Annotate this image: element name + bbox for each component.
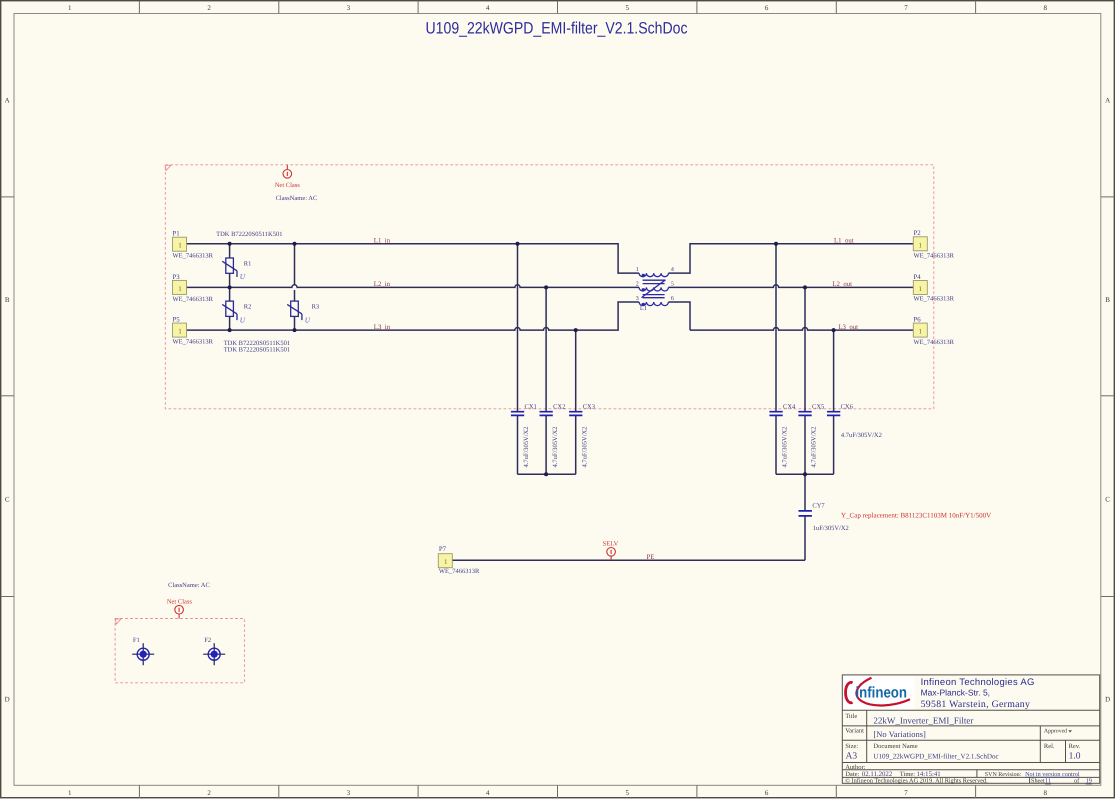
svg-text:6: 6 — [765, 4, 769, 12]
capacitor CX6 — [827, 412, 840, 416]
svg-text:© Infineon Technologies AG 201: © Infineon Technologies AG 2019. All Rig… — [845, 778, 988, 785]
svg-text:L2_out: L2_out — [832, 281, 852, 288]
TITLE BLOCK — [842, 675, 1099, 783]
svg-text:8: 8 — [1044, 4, 1048, 12]
svg-text:7: 7 — [904, 4, 908, 12]
svg-text:4.7uF/305V/X2: 4.7uF/305V/X2 — [782, 427, 789, 468]
svg-text:3: 3 — [636, 296, 639, 302]
svg-text:4.7uF/305V/X2: 4.7uF/305V/X2 — [523, 427, 530, 468]
svg-text:U: U — [305, 316, 311, 324]
svg-text:Y_Cap replacement: B81123C1103: Y_Cap replacement: B81123C1103M 10nF/Y1/… — [841, 511, 991, 519]
junction L2_in/R1-R2 — [228, 285, 232, 289]
net class directive (bottom) — [175, 605, 184, 618]
wire varistor column R1/R2 — [229, 244, 231, 330]
svg-text:PE: PE — [647, 554, 655, 561]
svg-text:SELV: SELV — [603, 541, 619, 548]
svg-text:59581 Warstein, Germany: 59581 Warstein, Germany — [921, 699, 1031, 710]
junction L3_in/R3 — [293, 328, 297, 332]
junction L1_out/CX4 — [774, 242, 778, 246]
svg-text:D: D — [5, 696, 10, 704]
junction CX bus left — [544, 472, 548, 476]
wire varistor column R3 — [294, 244, 296, 330]
coupling diagonal — [642, 280, 666, 298]
svg-text:1: 1 — [68, 789, 72, 797]
svg-text:U: U — [240, 316, 246, 324]
svg-text:1: 1 — [178, 328, 182, 336]
svg-text:CX6: CX6 — [841, 403, 854, 410]
svg-text:4: 4 — [671, 267, 674, 273]
port P6 — [913, 317, 954, 346]
svg-text:CX5: CX5 — [812, 403, 824, 410]
svg-text:22kW_Inverter_EMI_Filter: 22kW_Inverter_EMI_Filter — [873, 715, 973, 725]
capacitor CX5 — [798, 412, 811, 416]
svg-text:Author:: Author: — [845, 764, 865, 771]
wire L3_in (hops at CX1, CX2 verticals) — [187, 302, 640, 330]
capacitor CY7 — [799, 511, 812, 516]
svg-text:1: 1 — [919, 285, 923, 293]
svg-text:Max-Planck-Str. 5,: Max-Planck-Str. 5, — [921, 687, 990, 697]
svg-text:1: 1 — [919, 328, 923, 336]
svg-text:L3_out: L3_out — [838, 324, 858, 331]
svg-text:1: 1 — [178, 242, 182, 250]
svg-text:Net Class: Net Class — [167, 598, 193, 605]
company logo Infineon — [843, 676, 914, 709]
svg-text:4.7uF/305V/X2: 4.7uF/305V/X2 — [841, 432, 882, 439]
wire PE — [452, 559, 805, 561]
winding polarity dots — [642, 274, 645, 306]
svg-text:4.7uF/305V/X2: 4.7uF/305V/X2 — [552, 427, 559, 468]
port P3 — [173, 274, 214, 303]
junction L1_in/R1 — [228, 242, 232, 246]
winding 3 arcs — [639, 302, 668, 306]
svg-text:1: 1 — [178, 285, 182, 293]
svg-text:2: 2 — [636, 282, 639, 288]
svg-text:infineon: infineon — [856, 685, 908, 702]
svg-text:1: 1 — [636, 267, 639, 273]
junction L2_in/CX2 — [544, 285, 548, 289]
fiducial F1 — [132, 637, 154, 665]
svg-text:A: A — [1105, 96, 1110, 104]
svg-text:19: 19 — [1086, 778, 1092, 785]
junction L1_in/CX1 — [516, 242, 520, 246]
svg-text:4.7uF/305V/X2: 4.7uF/305V/X2 — [581, 427, 588, 468]
wire CX5 vertical — [804, 287, 806, 474]
svg-text:R2: R2 — [244, 303, 252, 310]
capacitor CX3 — [569, 412, 582, 416]
capacitor CX4 — [769, 412, 782, 416]
svg-text:2: 2 — [207, 4, 211, 12]
svg-text:5: 5 — [625, 789, 629, 797]
svg-text:ClassName: AC: ClassName: AC — [168, 582, 210, 589]
svg-text:P3: P3 — [173, 274, 181, 281]
svg-text:6: 6 — [765, 789, 769, 797]
svg-text:8: 8 — [1044, 789, 1048, 797]
svg-text:7: 7 — [904, 789, 908, 797]
winding 2 arcs — [639, 287, 668, 291]
svg-text:1.0: 1.0 — [1069, 752, 1081, 762]
svg-text:C: C — [5, 496, 10, 504]
svg-text:R3: R3 — [312, 303, 320, 310]
svg-text:L1_out: L1_out — [834, 238, 854, 245]
svg-text:U109_22kWGPD_EMI-filter_V2.1.S: U109_22kWGPD_EMI-filter_V2.1.SchDoc — [426, 20, 688, 38]
blanket AC class (top) — [165, 165, 934, 409]
wire CX1-CX3 bottom bus — [518, 473, 576, 475]
svg-text:5: 5 — [671, 282, 674, 288]
wire CX1 vertical — [517, 244, 519, 474]
svg-text:P2: P2 — [914, 230, 922, 237]
svg-text:CX2: CX2 — [553, 403, 565, 410]
svg-text:P1: P1 — [173, 231, 180, 238]
svg-text:Rev.: Rev. — [1069, 743, 1081, 750]
svg-text:3: 3 — [347, 4, 351, 12]
svg-text:L3_in: L3_in — [374, 324, 391, 331]
port P7 — [438, 546, 480, 575]
varistor R2 — [222, 301, 237, 320]
svg-text:CX3: CX3 — [583, 403, 595, 410]
svg-text:4: 4 — [486, 789, 490, 797]
fiducial F2 — [203, 637, 225, 665]
common-mode choke L1 — [639, 273, 668, 306]
svg-text:11: 11 — [1045, 778, 1051, 785]
svg-text:5: 5 — [625, 4, 629, 12]
svg-text:1: 1 — [919, 242, 923, 250]
port P1 — [173, 231, 214, 260]
wire L1_out — [668, 244, 913, 273]
svg-text:Approved: Approved — [1044, 727, 1067, 734]
svg-text:WE_7466313R: WE_7466313R — [173, 253, 214, 260]
svg-text:TDK B72220S0511K501: TDK B72220S0511K501 — [216, 231, 282, 238]
wire CX4 vertical — [775, 244, 777, 474]
wire CX4-CX6 bottom bus — [776, 473, 834, 475]
svg-text:1: 1 — [444, 558, 448, 566]
svg-text:Size:: Size: — [845, 743, 858, 750]
svg-text:Document Name: Document Name — [873, 743, 917, 750]
core bars — [643, 280, 665, 298]
svg-text:L2_in: L2_in — [374, 281, 391, 288]
port P4 — [913, 274, 954, 303]
svg-text:L1_in: L1_in — [374, 238, 391, 245]
svg-text:Title: Title — [845, 713, 857, 720]
svg-text:P6: P6 — [914, 317, 922, 324]
varistor R3 — [287, 301, 302, 320]
wire L2_out (hop at CX4 vertical) — [668, 285, 913, 288]
svg-text:SVN Revision:: SVN Revision: — [985, 772, 1022, 778]
junction L3_in/R2 — [228, 328, 232, 332]
wire L3_out (hops at CX4, CX5 verticals) — [668, 302, 913, 330]
svg-text:[No Variations]: [No Variations] — [873, 729, 926, 739]
svg-text:Sheet: Sheet — [1031, 778, 1045, 785]
svg-text:3: 3 — [347, 789, 351, 797]
svg-text:A3: A3 — [846, 752, 858, 762]
svg-text:Variant: Variant — [845, 727, 864, 734]
capacitor CX2 — [540, 412, 553, 416]
svg-text:2: 2 — [207, 789, 211, 797]
net class directive (top) — [283, 165, 292, 178]
svg-text:F1: F1 — [133, 637, 140, 644]
svg-text:1uF/305V/X2: 1uF/305V/X2 — [813, 525, 849, 532]
blanket AC class (bottom) — [115, 619, 244, 683]
wire L1_in — [187, 244, 640, 273]
svg-text:WE_7466313R: WE_7466313R — [914, 339, 955, 346]
svg-text:U: U — [240, 273, 246, 281]
port P2 — [913, 230, 954, 259]
svg-text:A: A — [5, 96, 10, 104]
junction L1_in/R3 — [293, 242, 297, 246]
svg-text:WE_7466313R: WE_7466313R — [914, 296, 955, 303]
svg-text:CX1: CX1 — [525, 403, 537, 410]
SELV directive — [607, 548, 616, 561]
junction L3_out/CX6 — [832, 328, 836, 332]
varistor R1 — [222, 258, 237, 277]
svg-text:Infineon Technologies AG: Infineon Technologies AG — [921, 677, 1035, 688]
junction CX bus right / CY7 — [803, 472, 807, 476]
junction L2_out/CX5 — [803, 285, 807, 289]
svg-text:U109_22kWGPD_EMI-filter_V2.1.S: U109_22kWGPD_EMI-filter_V2.1.SchDoc — [873, 753, 998, 761]
svg-text:WE_7466313R: WE_7466313R — [439, 568, 480, 575]
wire CX2 vertical — [545, 287, 547, 474]
svg-text:WE_7466313R: WE_7466313R — [173, 339, 214, 346]
port P5 — [173, 317, 214, 346]
svg-text:P7: P7 — [439, 546, 447, 553]
capacitor CX1 — [511, 412, 524, 416]
svg-text:6: 6 — [671, 296, 674, 302]
svg-text:B: B — [1105, 296, 1110, 304]
svg-text:D: D — [1105, 696, 1110, 704]
junction L3_in/CX3 — [574, 328, 578, 332]
svg-text:ClassName: AC: ClassName: AC — [276, 195, 318, 202]
svg-text:B: B — [5, 296, 10, 304]
svg-text:WE_7466313R: WE_7466313R — [914, 253, 955, 260]
svg-text:4.7uF/305V/X2: 4.7uF/305V/X2 — [811, 427, 818, 468]
svg-text:P5: P5 — [173, 317, 181, 324]
wire CY7 vertical — [804, 474, 806, 560]
wire L2_in (hops at R3 and CX1 verticals) — [187, 285, 640, 288]
svg-text:CX4: CX4 — [783, 403, 796, 410]
svg-text:WE_7466313R: WE_7466313R — [173, 296, 214, 303]
wire CX6 vertical — [833, 330, 835, 474]
svg-text:TDK B72220S0511K501: TDK B72220S0511K501 — [224, 346, 290, 353]
svg-text:1: 1 — [68, 4, 72, 12]
winding 1 arcs — [639, 273, 668, 277]
svg-text:P4: P4 — [914, 274, 922, 281]
wire CX3 vertical — [575, 330, 577, 474]
svg-text:L1: L1 — [640, 305, 647, 312]
svg-text:Rel.: Rel. — [1044, 743, 1055, 750]
svg-text:C: C — [1105, 496, 1110, 504]
svg-text:F2: F2 — [204, 637, 211, 644]
svg-text:4: 4 — [486, 4, 490, 12]
svg-text:Net Class: Net Class — [275, 182, 301, 189]
svg-text:CY7: CY7 — [812, 503, 825, 510]
svg-text:R1: R1 — [244, 260, 252, 267]
choke pin number labels 1-6 — [636, 267, 674, 302]
